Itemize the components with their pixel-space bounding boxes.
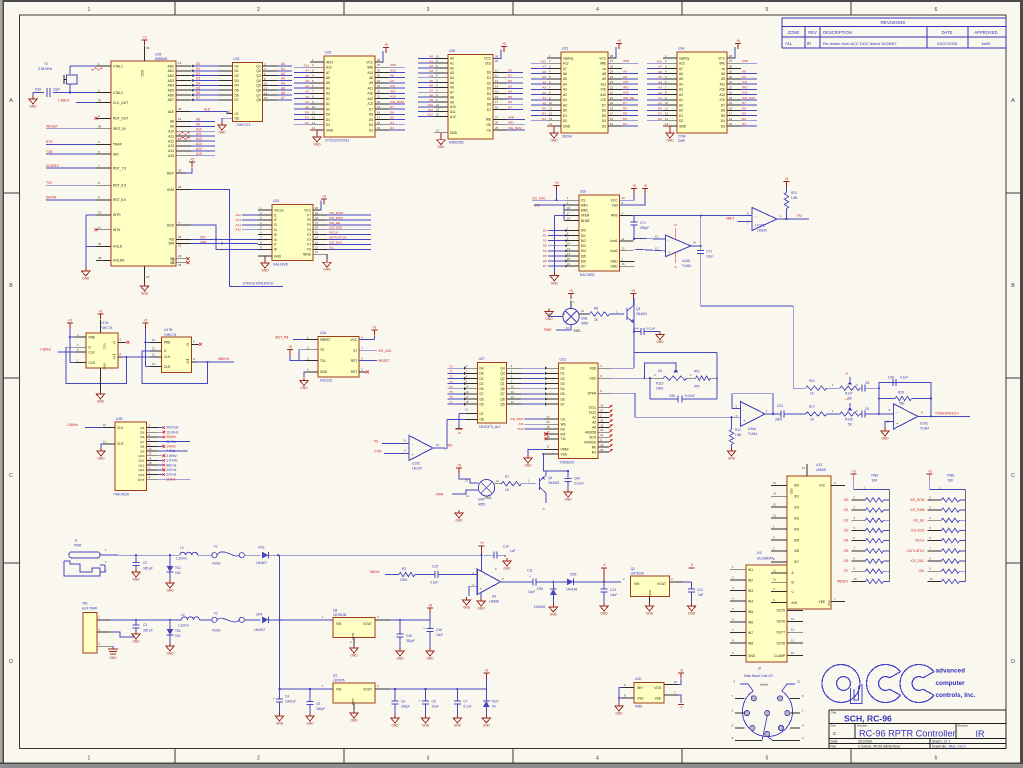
svg-text:13: 13 <box>312 121 316 125</box>
svg-text:D7: D7 <box>543 264 547 268</box>
svg-text:D: D <box>9 659 13 665</box>
svg-text:28 KHz: 28 KHz <box>166 440 177 444</box>
svg-text:11: 11 <box>312 110 315 114</box>
svg-text:10: 10 <box>98 211 102 215</box>
svg-text:D4: D4 <box>235 84 239 88</box>
svg-text:15: 15 <box>600 423 604 427</box>
svg-text:17: 17 <box>610 112 614 116</box>
svg-text:U3D: U3D <box>635 677 642 681</box>
svg-text:/CE-3220: /CE-3220 <box>329 226 342 230</box>
svg-text:D6: D6 <box>508 100 512 104</box>
svg-text:D1: D1 <box>305 116 309 120</box>
svg-text:A9: A9 <box>602 77 606 81</box>
svg-text:20: 20 <box>146 275 150 279</box>
svg-text:D7: D7 <box>487 108 491 112</box>
svg-text:/RESET: /RESET <box>46 125 58 129</box>
svg-text:A13: A13 <box>235 218 241 222</box>
svg-text:10: 10 <box>103 423 107 427</box>
svg-text:VIN: VIN <box>336 688 342 692</box>
svg-text:/S1: /S1 <box>844 508 849 512</box>
svg-text:Q4: Q4 <box>500 367 504 371</box>
svg-text:12: 12 <box>511 400 515 404</box>
svg-text:I2: I2 <box>274 218 277 222</box>
svg-text:+5: +5 <box>928 470 932 474</box>
svg-text:A13: A13 <box>196 142 202 146</box>
svg-text:GND: GND <box>82 277 90 281</box>
svg-text:/WE: /WE <box>600 62 606 66</box>
svg-text:A1: A1 <box>450 61 454 65</box>
svg-text:/OCLK: /OCLK <box>329 231 339 235</box>
svg-text:2764: 2764 <box>678 135 686 139</box>
svg-text:ULN2804A: ULN2804A <box>757 557 774 561</box>
svg-text:REVISIONS: REVISIONS <box>880 20 905 25</box>
svg-text:12: 12 <box>178 61 182 65</box>
svg-text:12: 12 <box>315 245 319 249</box>
svg-text:13: 13 <box>655 234 659 238</box>
svg-text:450KHz: 450KHz <box>218 357 230 361</box>
svg-text:C8: C8 <box>865 381 869 385</box>
svg-text:C6: C6 <box>401 700 405 704</box>
svg-text:330pF: 330pF <box>406 639 415 643</box>
svg-text:A3: A3 <box>450 71 454 75</box>
svg-text:14: 14 <box>148 456 152 460</box>
svg-text:A15: A15 <box>235 228 241 232</box>
svg-text:A7: A7 <box>658 65 662 69</box>
svg-text:VIN: VIN <box>336 622 342 626</box>
svg-text:GND: GND <box>97 400 105 404</box>
svg-text:A10: A10 <box>196 127 202 131</box>
svg-text:AD7: AD7 <box>168 98 175 102</box>
svg-text:CS: CS <box>581 199 585 203</box>
svg-text:D0: D0 <box>235 64 239 68</box>
svg-text:F1: F1 <box>214 545 218 549</box>
svg-text:Iout1: Iout1 <box>610 239 617 243</box>
svg-text:440 Hz: 440 Hz <box>166 468 177 472</box>
svg-text:OSC: OSC <box>589 377 597 381</box>
svg-text:11: 11 <box>773 568 776 572</box>
svg-text:Q13: Q13 <box>138 468 144 472</box>
svg-text:A9: A9 <box>369 81 373 85</box>
svg-text:20: 20 <box>622 196 626 200</box>
svg-text:A5: A5 <box>563 77 567 81</box>
svg-text:I9/OE: I9/OE <box>303 253 311 257</box>
svg-text:21: 21 <box>610 91 614 95</box>
svg-text:D1: D1 <box>508 74 512 78</box>
svg-text:HOLD: HOLD <box>113 245 123 249</box>
svg-text:A4: A4 <box>429 74 433 78</box>
svg-text:A13: A13 <box>168 144 174 148</box>
svg-text:R3: R3 <box>402 567 406 571</box>
svg-text:16: 16 <box>315 226 319 230</box>
svg-text:U3: U3 <box>757 551 761 555</box>
svg-text:A8: A8 <box>623 70 627 74</box>
svg-text:25: 25 <box>729 70 733 74</box>
svg-text:IN8: IN8 <box>748 641 753 645</box>
svg-text:GND: GND <box>97 457 105 461</box>
svg-text:D0: D0 <box>326 113 330 117</box>
svg-text:IO/M: IO/M <box>167 188 174 192</box>
svg-text:U16C: U16C <box>920 422 929 426</box>
svg-text:4055: 4055 <box>478 503 485 507</box>
svg-text:GND: GND <box>261 269 269 273</box>
svg-text:/CE_RAM: /CE_RAM <box>329 216 343 220</box>
svg-text:TS2: TS2 <box>175 629 181 633</box>
svg-text:27: 27 <box>495 115 499 119</box>
svg-text:10: 10 <box>312 105 316 109</box>
svg-text:GND: GND <box>450 131 458 135</box>
svg-text:Q8: Q8 <box>140 445 144 449</box>
svg-text:0.01uF: 0.01uF <box>574 482 584 486</box>
svg-text:CLK: CLK <box>117 426 124 430</box>
svg-text:+: + <box>419 699 421 703</box>
svg-text:VCC: VCC <box>484 57 491 61</box>
svg-text:D6: D6 <box>235 93 239 97</box>
svg-text:Q6: Q6 <box>140 435 144 439</box>
svg-text:14KHz: 14KHz <box>166 445 176 449</box>
svg-text:A0: A0 <box>563 103 567 107</box>
svg-text:11: 11 <box>98 226 101 230</box>
svg-text:TRAP: TRAP <box>113 143 123 147</box>
svg-text:I4: I4 <box>274 228 277 232</box>
svg-text:I3: I3 <box>274 223 277 227</box>
svg-text:GND: GND <box>679 124 687 128</box>
svg-text:D0: D0 <box>679 109 683 113</box>
svg-text:AD4: AD4 <box>168 84 175 88</box>
svg-text:A6: A6 <box>658 70 662 74</box>
svg-text:RST_5.5: RST_5.5 <box>113 198 126 202</box>
svg-text:A4: A4 <box>679 82 683 86</box>
svg-text:A8: A8 <box>450 95 454 99</box>
svg-text:A5: A5 <box>542 75 546 79</box>
svg-text:D1: D1 <box>563 114 567 118</box>
svg-text:21: 21 <box>436 103 440 107</box>
svg-text:15: 15 <box>495 90 499 94</box>
svg-text:CR3: CR3 <box>258 546 265 550</box>
svg-text:A12: A12 <box>656 59 662 63</box>
svg-text:U27: U27 <box>479 357 485 361</box>
svg-text:20: 20 <box>315 206 319 210</box>
svg-text:PS: PS <box>374 439 378 443</box>
svg-text:/CE_RAM: /CE_RAM <box>508 126 522 130</box>
svg-text:29: 29 <box>178 254 182 258</box>
svg-text:VREF: VREF <box>561 448 570 452</box>
svg-text:RC-96 RPTR Controller: RC-96 RPTR Controller <box>859 728 956 738</box>
svg-text:/WE: /WE <box>719 62 725 66</box>
svg-text:A11: A11 <box>368 86 374 90</box>
svg-text:16: 16 <box>567 262 571 266</box>
svg-text:U15C: U15C <box>412 462 421 466</box>
svg-text:+5: +5 <box>384 43 388 47</box>
svg-text:73: 73 <box>449 380 453 384</box>
svg-text:10uF: 10uF <box>528 590 535 594</box>
svg-text:76: 76 <box>449 395 453 399</box>
svg-text:A3: A3 <box>679 88 683 92</box>
svg-text:OUT5: OUT5 <box>776 609 785 613</box>
svg-text:R26: R26 <box>898 391 904 395</box>
svg-text:+5: +5 <box>372 326 376 330</box>
svg-text:TONE/SPEECH: TONE/SPEECH <box>935 411 959 415</box>
svg-text:11: 11 <box>228 109 231 113</box>
svg-text:D7: D7 <box>196 96 200 100</box>
svg-text:/CE_DAC: /CE_DAC <box>329 240 343 244</box>
svg-text:D4: D4 <box>543 249 547 253</box>
svg-text:IO4: IO4 <box>794 527 799 531</box>
svg-text:INH: INH <box>637 686 643 690</box>
svg-text:GND: GND <box>350 654 358 658</box>
svg-text:IO2: IO2 <box>794 505 799 509</box>
svg-text:PRE: PRE <box>164 341 171 345</box>
svg-text:A0: A0 <box>658 101 662 105</box>
svg-text:AD5: AD5 <box>168 88 175 92</box>
svg-text:C71: C71 <box>640 221 646 225</box>
svg-text:Q5: Q5 <box>140 431 144 435</box>
svg-text:C48: C48 <box>888 376 894 380</box>
svg-text:13: 13 <box>466 385 470 389</box>
svg-text:11: 11 <box>103 439 106 443</box>
svg-text:34: 34 <box>178 185 182 189</box>
svg-text:11: 11 <box>315 250 318 254</box>
svg-text:/CE_EE: /CE_EE <box>329 221 340 225</box>
svg-text:LM339: LM339 <box>757 229 767 233</box>
svg-text:21: 21 <box>600 433 604 437</box>
svg-text:14: 14 <box>549 122 553 126</box>
svg-text:330pF: 330pF <box>640 226 649 230</box>
svg-text:C6: C6 <box>865 407 869 411</box>
svg-text:D4: D4 <box>602 119 606 123</box>
svg-text:RS: RS <box>561 427 565 431</box>
svg-text:LE: LE <box>480 412 484 416</box>
svg-text:+V: +V <box>479 541 484 545</box>
svg-text:/CE_RAM: /CE_RAM <box>910 508 925 512</box>
svg-text:16: 16 <box>622 262 626 266</box>
svg-text:D2: D2 <box>326 123 330 127</box>
svg-text:1: 1 <box>88 7 91 13</box>
svg-text:10: 10 <box>264 82 268 86</box>
svg-text:+: + <box>273 697 275 701</box>
svg-text:27: 27 <box>610 59 614 63</box>
svg-text:10: 10 <box>436 54 440 58</box>
svg-text:16: 16 <box>729 117 733 121</box>
svg-text:/CE_EE: /CE_EE <box>913 518 924 522</box>
svg-text:D4: D4 <box>390 121 394 125</box>
svg-text:GND: GND <box>426 657 434 661</box>
svg-text:A: A <box>9 98 13 104</box>
svg-text:D5: D5 <box>602 114 606 118</box>
svg-text:12: 12 <box>549 112 553 116</box>
svg-text:10: 10 <box>797 680 801 684</box>
svg-text:D1: D1 <box>326 118 330 122</box>
svg-text:A10: A10 <box>600 93 606 97</box>
svg-text:CLK: CLK <box>89 350 96 354</box>
svg-text:113 KHz: 113 KHz <box>166 430 178 434</box>
svg-text:/RD: /RD <box>200 235 206 239</box>
svg-text:8085AH: 8085AH <box>155 57 168 61</box>
svg-text:14: 14 <box>436 443 440 447</box>
svg-text:D3: D3 <box>196 77 200 81</box>
svg-text:A4: A4 <box>305 84 309 88</box>
svg-text:11: 11 <box>622 237 625 241</box>
svg-text:Q5: Q5 <box>500 402 504 406</box>
svg-text:A14: A14 <box>235 223 241 227</box>
svg-text:A14: A14 <box>196 147 202 151</box>
svg-text:15: 15 <box>610 122 614 126</box>
svg-text:IO3: IO3 <box>794 516 799 520</box>
svg-text:A7: A7 <box>326 71 330 75</box>
svg-text:Q1: Q1 <box>256 64 261 68</box>
svg-text:15: 15 <box>511 385 515 389</box>
svg-text:A4: A4 <box>281 81 285 85</box>
svg-text:+5: +5 <box>679 669 683 673</box>
svg-text:A11: A11 <box>720 82 726 86</box>
svg-text:INTR: INTR <box>113 213 121 217</box>
svg-text:900 KHz: 900 KHz <box>166 426 179 430</box>
svg-text:A: A <box>1011 98 1015 104</box>
svg-text:A3: A3 <box>429 69 433 73</box>
svg-text:17: 17 <box>567 211 571 215</box>
svg-text:26: 26 <box>600 418 604 422</box>
svg-text:1.8 KHz: 1.8 KHz <box>166 459 178 463</box>
svg-text:A0: A0 <box>542 101 546 105</box>
svg-text:D0: D0 <box>305 111 309 115</box>
svg-text:1: 1 <box>941 740 943 744</box>
svg-text:330pF: 330pF <box>316 707 325 711</box>
svg-text:/RST_PB: /RST_PB <box>275 335 288 339</box>
svg-text:GND: GND <box>323 268 331 272</box>
svg-text:D1: D1 <box>561 372 565 376</box>
svg-text:VOUT: VOUT <box>657 582 666 586</box>
svg-text:OE: OE <box>486 123 491 127</box>
svg-text:/S2: /S2 <box>844 518 849 522</box>
svg-text:Q5: Q5 <box>333 609 337 613</box>
svg-text:I8: I8 <box>274 248 277 252</box>
svg-text:A6: A6 <box>542 70 546 74</box>
svg-text:AUX PWR: AUX PWR <box>82 607 98 611</box>
svg-text:IO6: IO6 <box>794 549 799 553</box>
svg-text:A5: A5 <box>429 79 433 83</box>
svg-text:SERIN: SERIN <box>46 196 57 200</box>
svg-text:D0: D0 <box>561 367 565 371</box>
svg-text:LM78L08: LM78L08 <box>333 613 347 617</box>
svg-text:A12: A12 <box>540 59 546 63</box>
svg-text:Revision: Revision <box>958 724 969 728</box>
svg-text:DAC0832: DAC0832 <box>580 273 595 277</box>
svg-text:0.1uF: 0.1uF <box>900 376 908 380</box>
svg-text:6: 6 <box>935 756 938 762</box>
svg-text:TL064: TL064 <box>748 432 757 436</box>
svg-text:GND: GND <box>483 724 491 728</box>
svg-text:10: 10 <box>665 101 669 105</box>
svg-text:03/07/2026: 03/07/2026 <box>937 41 958 46</box>
svg-text:/S0: /S0 <box>844 498 849 502</box>
svg-text:LM139: LM139 <box>412 467 422 471</box>
svg-text:A6: A6 <box>563 72 567 76</box>
svg-text:D2: D2 <box>542 117 546 121</box>
svg-text:GND: GND <box>132 640 140 644</box>
svg-text:A6: A6 <box>679 72 683 76</box>
svg-text:74HC74: 74HC74 <box>100 326 113 330</box>
svg-text:ZONE: ZONE <box>788 30 800 35</box>
svg-text:26: 26 <box>610 64 614 68</box>
svg-text:13: 13 <box>511 395 515 399</box>
svg-text:CS: CS <box>561 417 565 421</box>
svg-text:A12: A12 <box>168 139 174 143</box>
svg-text:/RESET: /RESET <box>837 579 849 583</box>
svg-text:GND: GND <box>350 719 358 723</box>
svg-text:A2: A2 <box>326 97 330 101</box>
svg-text:Q6: Q6 <box>500 397 504 401</box>
svg-text:A1: A1 <box>429 59 433 63</box>
svg-text:CR6: CR6 <box>537 587 544 591</box>
svg-text:SPKR: SPKR <box>588 392 597 396</box>
svg-text:AD6: AD6 <box>168 93 175 97</box>
svg-text:R51: R51 <box>694 370 700 374</box>
svg-text:GAL16V8: GAL16V8 <box>273 263 288 267</box>
svg-text:27C512/27C011: 27C512/27C011 <box>325 139 350 143</box>
svg-text:D1: D1 <box>196 67 200 71</box>
svg-text:GND: GND <box>29 105 37 109</box>
svg-text:GND: GND <box>563 124 571 128</box>
svg-text:22: 22 <box>600 428 604 432</box>
svg-text:D0: D0 <box>543 228 547 232</box>
svg-text:TO7: TO7 <box>46 181 53 185</box>
svg-text:U23: U23 <box>560 358 566 362</box>
svg-text:330pF: 330pF <box>401 705 410 709</box>
svg-text:13: 13 <box>665 117 669 121</box>
svg-text:Q2: Q2 <box>500 377 504 381</box>
svg-text:SCH, RC-96: SCH, RC-96 <box>844 714 892 724</box>
svg-text:C7: C7 <box>463 700 467 704</box>
svg-text:19: 19 <box>315 211 319 215</box>
svg-text:/CL: /CL <box>329 245 334 249</box>
svg-text:GND: GND <box>524 464 532 468</box>
svg-text:R107: R107 <box>845 392 853 396</box>
svg-text:19: 19 <box>567 217 571 221</box>
svg-text:+: + <box>529 575 531 579</box>
svg-text:D6: D6 <box>487 103 491 107</box>
svg-text:IR: IR <box>807 41 811 46</box>
svg-text:DI2: DI2 <box>581 239 586 243</box>
svg-text:KM62256: KM62256 <box>449 141 464 145</box>
svg-text:330 pF: 330 pF <box>143 567 153 571</box>
svg-text:R31: R31 <box>809 379 815 383</box>
svg-text:19: 19 <box>377 105 381 109</box>
svg-text:Q8: Q8 <box>256 98 261 102</box>
svg-text:3/11/2026: 3/11/2026 <box>858 740 872 744</box>
svg-text:25: 25 <box>495 126 499 130</box>
svg-text:+5: +5 <box>68 319 72 323</box>
svg-text:TS27: TS27 <box>491 700 499 704</box>
svg-text:14: 14 <box>496 479 500 483</box>
svg-text:5MET: 5MET <box>726 217 735 221</box>
svg-text:12: 12 <box>773 514 777 518</box>
svg-text:RN6: RN6 <box>947 474 954 478</box>
svg-text:21: 21 <box>178 117 182 121</box>
svg-text:20: 20 <box>377 100 381 104</box>
svg-text:RST: RST <box>351 370 357 374</box>
svg-text:1uF: 1uF <box>510 549 516 553</box>
svg-text:D3: D3 <box>742 122 746 126</box>
svg-text:+5: +5 <box>852 470 856 474</box>
svg-text:A12: A12 <box>303 63 309 67</box>
svg-text:VSS: VSS <box>827 600 831 606</box>
svg-text:14: 14 <box>315 236 319 240</box>
svg-text:/RD: /RD <box>390 89 396 93</box>
svg-text:/CE_DAC: /CE_DAC <box>378 349 393 353</box>
svg-text:/WR: /WR <box>623 59 630 63</box>
svg-text:AD3: AD3 <box>168 79 175 83</box>
svg-text:IO5: IO5 <box>794 538 799 542</box>
svg-text:YSEL: YSEL <box>573 329 581 333</box>
